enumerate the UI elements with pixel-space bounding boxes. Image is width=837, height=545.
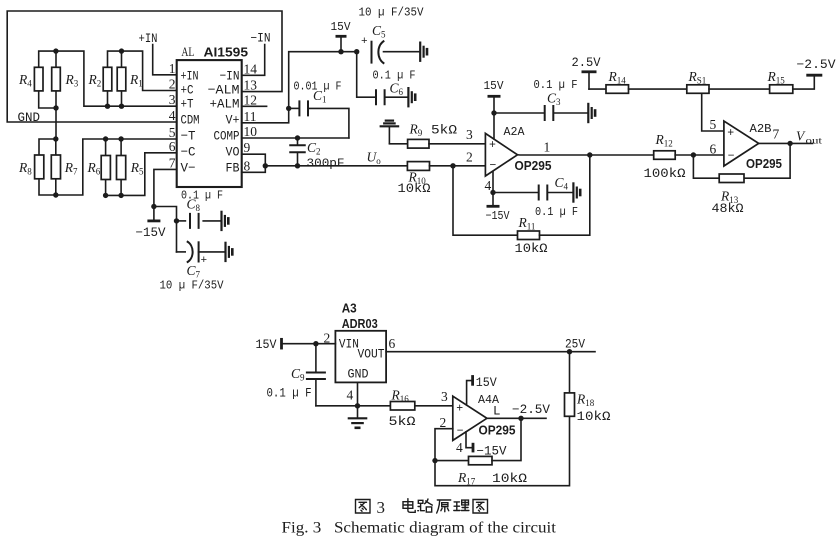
node -IN label [251,32,271,46]
resistor R2 [103,67,112,91]
wire C1 left lead from V+ line [286,106,299,111]
label 15V lower [256,338,277,352]
wire R5 top lead [118,136,123,155]
wire C3 right lead [553,112,588,114]
svg-text:+: + [361,36,368,48]
label R12 [655,132,673,149]
svg-text:10 µ F/35V: 10 µ F/35V [359,6,425,20]
ground after C6 [408,87,415,107]
svg-text:13: 13 [244,78,258,93]
label R17 value 10k [492,472,528,486]
svg-text:3: 3 [441,389,448,404]
svg-text:OP295: OP295 [515,158,552,173]
op-amp U1 AI1595 body [177,60,242,187]
wire R14 to RS1 [629,88,687,90]
resistor R10 [407,162,429,171]
wire C4 right lead [547,192,573,194]
svg-text:9: 9 [244,140,251,155]
wire pin9 VO / pin8 FB tie [242,154,268,172]
svg-text:−IN: −IN [220,68,240,83]
wire pin11 V+ up to 15V rail [242,49,360,123]
label pin3 number [466,127,473,142]
label U1 right pin names and numbers 14-8 [208,61,258,175]
svg-text:4: 4 [485,178,492,193]
caption Chinese: 图 3 电路原理图 [356,498,488,517]
label pin6 number ADR03 [389,336,396,351]
svg-text:−T: −T [181,129,196,144]
wire C9 bottom lead [315,379,317,406]
wire RS1 to R15 [709,88,770,90]
wire C1 right lead down to COMP [308,108,349,138]
svg-text:7: 7 [773,127,780,142]
svg-text:12: 12 [244,92,258,107]
resistor R11 [518,231,540,240]
svg-text:5kΩ: 5kΩ [431,124,458,138]
svg-text:+: + [489,139,496,152]
wire R12 to A2B pin6 [675,152,724,157]
wire +IN input stub [153,45,177,75]
wire R2 bottom lead [105,91,110,109]
label OP295 A2B [746,156,782,171]
wire R8/R7 bottom node up to -T (pin5) line [39,139,177,198]
label R7 [64,160,78,177]
wire A2A pin1 output line [518,152,654,157]
resistor R7 [51,155,60,179]
svg-text:15V: 15V [476,376,497,390]
svg-text:VIN: VIN [339,337,359,352]
resistor R16 [390,402,414,411]
label pin4 number [485,178,492,193]
label A2A [504,125,526,139]
wire C9/GND rail to R16 [316,405,391,407]
label R5 [130,160,144,177]
capacitor C9 [306,373,326,380]
svg-text:−: − [457,425,464,438]
label C4 [555,175,569,192]
label R18 value 10k [577,410,612,424]
wire R7 top lead [55,139,57,155]
svg-text:14: 14 [244,61,258,76]
ground after C7 [226,242,233,262]
svg-text:+: + [201,255,208,267]
wire ground to R9 [389,143,407,145]
wire ladder vertical R3R4-bottom to R7R8-top [55,91,57,139]
power 2.5V terminal [582,72,597,89]
resistor R8 [35,155,44,179]
svg-text:−15V: −15V [486,209,511,223]
wire A2B pin7 output [759,141,813,146]
label C9 [291,366,305,383]
capacitor C1 [299,100,308,116]
svg-text:GND: GND [348,367,369,382]
wire A4A pin2 to R17 node [432,429,453,464]
svg-text:6: 6 [389,336,396,351]
label 15V A2A [484,79,505,93]
svg-text:4: 4 [456,440,463,455]
wire R6 top lead [103,136,108,155]
node +IN label [139,32,158,46]
label pin L (output 1) [493,405,501,419]
svg-text:V+: V+ [226,112,240,127]
label R11 [518,215,536,232]
svg-text:−15V: −15V [136,226,166,240]
label R18 [576,392,595,409]
svg-text:−: − [490,160,497,173]
wire VOUT pin6 to 25V rail [386,349,595,354]
wire R9 to A2A pin3 [429,143,485,145]
wire R18 bottom loop to R17 node [435,416,570,485]
svg-text:−: − [728,150,735,163]
ground below ADR03 [348,406,368,428]
svg-text:5kΩ: 5kΩ [389,415,417,429]
label C4 value 0.1uF [535,205,578,219]
power -15V terminal [147,207,160,221]
svg-text:V−: V− [181,161,196,176]
label 15V A4A [476,376,497,390]
svg-text:5: 5 [169,125,176,140]
wire R13 loop [693,143,790,178]
wire 15V to A2A V+ and C3 [491,96,544,139]
label -15V [136,226,166,240]
power 15V terminal A2A [488,95,501,98]
label R16 value 5k [389,415,417,429]
label R10 value 10k [398,182,432,196]
capacitor C5 (polarized) [361,36,420,64]
wire GND pin4 ADR03 [355,382,360,408]
wire R17 right up to output [492,418,521,460]
svg-text:11: 11 [244,109,257,124]
wire RS1 wiper to A2B pin5 [702,93,724,131]
label pin4 number ADR03 [347,388,354,403]
wire -IN input stub [242,45,265,76]
label C8 value 0.1uF [181,189,223,203]
resistor R6 [101,156,110,180]
label AI1595 [204,46,249,60]
label R16 [391,388,410,405]
label VOUT [358,347,385,362]
label U1 left pin names and numbers 1-7 [169,61,200,176]
svg-text:6: 6 [710,142,717,157]
ground after C4 [573,182,580,202]
wire R10 to A2A pin2 [430,163,486,168]
wire R16 to A4A pin3 [415,405,453,407]
svg-text:8: 8 [244,158,251,173]
svg-text:−ALM: −ALM [208,82,240,97]
svg-text:AI1595: AI1595 [204,46,249,60]
label C1 [313,88,327,105]
svg-text:OP295: OP295 [479,423,516,438]
svg-text:4: 4 [347,388,354,403]
ground after C8 [222,211,229,231]
ground after C3 [588,103,595,123]
wire R2/R1 top node to +C (pin2) [108,48,177,90]
svg-text:2.5V: 2.5V [572,56,601,70]
label C3 value 0.1uF [534,78,578,92]
label C3 [547,91,561,108]
label R11 value 10k [515,242,549,256]
svg-text:3: 3 [466,127,473,142]
svg-text:15V: 15V [331,20,352,34]
label pin3 number A4A [441,389,448,404]
resistor R5 [117,156,126,180]
wire A2A V- pin4 node [490,171,495,195]
svg-text:2: 2 [324,331,331,346]
capacitor C6 [376,89,385,105]
svg-text:2: 2 [169,77,176,92]
node U_o label [367,150,382,167]
svg-text:0.1 µ F: 0.1 µ F [535,205,578,219]
svg-text:A2A: A2A [504,125,526,139]
label R8 [18,160,32,177]
svg-text:2: 2 [440,415,447,430]
label pin1 number [544,140,551,155]
svg-text:2: 2 [466,150,473,165]
label AL [181,44,194,59]
svg-text:10 µ F/35V: 10 µ F/35V [160,279,225,293]
label C1 value 0.01uF [294,80,342,94]
label C2 value 300pF [307,157,345,171]
label A2B [750,122,772,136]
wire C4 left lead [493,192,539,194]
wire R18 top lead [569,352,571,393]
label -2.5V [797,58,837,72]
svg-text:100kΩ: 100kΩ [644,167,687,181]
capacitor C3 [545,105,554,121]
ground after C5 [420,42,427,62]
svg-text:+IN: +IN [139,32,158,46]
wire R1 bottom lead [119,91,124,109]
svg-text:VO: VO [226,144,240,159]
svg-text:300pF: 300pF [307,157,345,171]
label A4A [478,393,500,407]
label ADR03 [342,317,378,331]
svg-text:−C: −C [181,144,196,159]
power 15V terminal lower [280,338,283,350]
wire pin10 COMP line [242,135,349,140]
svg-text:3: 3 [377,498,386,517]
wire C8 left lead [177,220,186,222]
wire R3 top lead [55,51,57,67]
svg-text:6: 6 [169,139,176,154]
svg-text:10kΩ: 10kΩ [492,472,528,486]
svg-text:0.1 µ F: 0.1 µ F [267,387,312,401]
node Vout label [796,129,822,147]
label C8 [187,197,201,214]
svg-text:−IN: −IN [251,32,271,46]
label R9 and value 5k [409,122,458,139]
power -15V terminal A2A [487,193,500,207]
svg-text:1: 1 [544,140,551,155]
resistor R17 [469,456,493,464]
resistor R15 [770,85,793,94]
wire R17 left [435,460,469,462]
label pin2 number [466,150,473,165]
svg-text:+ALM: +ALM [210,97,240,112]
label -15V A2A [486,209,511,223]
capacitor C8 [190,213,199,229]
wire C9 top lead [315,344,317,373]
label R14 [608,69,627,86]
svg-text:VOUT: VOUT [358,347,385,362]
label VIN [339,337,359,352]
label R10 [408,170,427,187]
wire V- node to C8/C7 branch [154,207,179,252]
wire R15 to -2.5V [793,75,815,89]
svg-text:ADR03: ADR03 [342,317,378,331]
label R13 value 48k [712,202,745,216]
svg-text:1: 1 [169,61,176,76]
wire R6/R5 bottom node to -C (pin6) [103,153,177,198]
svg-text:7: 7 [169,155,176,170]
label GND pin [348,367,369,382]
power -15V terminal A4A [472,443,475,453]
label C9 value 0.1uF [267,387,312,401]
label A3 [342,302,357,316]
resistor R14 [606,85,629,94]
svg-text:out: out [806,137,823,147]
label 15V [331,20,352,34]
op-amp A2A OP295 [485,133,517,176]
resistor R4 [34,67,43,91]
label pin4 number A4A [456,440,463,455]
label C5 value 10uF/35V [359,6,425,20]
resistor RS1 (trimmer) [687,85,709,94]
svg-text:L: L [493,405,501,419]
wire pin7 V- to -15V node [151,169,177,209]
label OP295 A4A [479,423,516,438]
svg-text:AL: AL [181,44,194,59]
op-amp A4A OP295 [453,396,487,440]
svg-text:3: 3 [169,92,176,107]
label OP295 A2A [515,158,552,173]
wire R1 top lead [121,51,123,67]
wire 2.5V to R14 [589,88,606,90]
label C7 value 10uF/35V [160,279,225,293]
svg-text:10kΩ: 10kΩ [515,242,549,256]
label C5 [372,23,386,40]
label 2.5V [572,56,601,70]
wire GND rail / outer -ALM loop (pin13 to pin4) [7,11,282,122]
wire pin12 +ALM stub [242,105,267,107]
node GND label [18,111,41,125]
svg-text:FB: FB [226,161,240,176]
label R13 [720,189,739,206]
label pin5 number [710,117,717,132]
wire 15V to VIN pin2 [282,341,336,346]
label R15 [767,69,786,86]
resistor R13 [719,174,744,183]
capacitor C7 (polarized) [177,241,226,267]
label C6 value 0.1uF [373,69,416,83]
wire R8/R7 top node [39,136,59,155]
label R4 [18,72,32,89]
label -15V A4A [477,445,507,459]
label pin7 number [773,127,780,142]
svg-text:−2.5V: −2.5V [797,58,837,72]
svg-text:10kΩ: 10kΩ [577,410,612,424]
wire A4A V- pin4 to -15V [466,432,472,448]
svg-text:+: + [727,127,734,140]
svg-text:−2.5V: −2.5V [512,403,550,417]
svg-text:GND: GND [18,111,41,125]
caption Fig. 3 Schematic diagram of the circuit [282,519,557,537]
svg-text:OP295: OP295 [746,156,782,171]
svg-text:48kΩ: 48kΩ [712,202,745,216]
capacitor C4 [539,185,548,201]
svg-text:10: 10 [244,124,258,139]
wire R11 loop left [453,166,518,235]
power 15V terminal [336,36,347,51]
capacitor C2 [289,138,306,169]
svg-text:25V: 25V [565,338,585,352]
svg-text:+: + [456,403,463,416]
label pin6 number [710,142,717,157]
wire A4A V+ 15V [467,375,473,405]
svg-text:A3: A3 [342,302,357,316]
wire U_o output line [265,165,407,167]
wire R5 bottom lead [120,180,122,196]
svg-text:10kΩ: 10kΩ [398,182,432,196]
label R12 value 100k [644,167,687,181]
label R3 [65,72,79,89]
label C6 [390,81,404,98]
label pin2 number ADR03 [324,331,331,346]
svg-text:A2B: A2B [750,122,772,136]
resistor R18 [565,393,575,416]
label R2 [88,72,102,89]
wire A4A output line [487,416,546,421]
wire R4/R3 top node to +T (pin3) line [39,48,177,106]
resistor R12 [654,151,676,160]
svg-text:+IN: +IN [181,68,199,83]
label C2 [307,140,321,157]
svg-text:15V: 15V [484,79,505,93]
label pin2 number A4A [440,415,447,430]
label R6 [87,160,101,177]
power -2.5V terminal [806,74,822,77]
label 25V [565,338,585,352]
svg-text:CDM: CDM [181,112,200,127]
label -2.5V output [512,403,550,417]
label C7 [187,263,201,280]
svg-text:COMP: COMP [214,129,240,144]
ground above R9 [380,121,400,144]
wire C6 right lead [385,96,408,98]
wire 15V rail down to C6 [357,52,376,97]
label RS1 [688,69,707,86]
wire C8 right lead [203,220,221,222]
label R17 [457,470,476,487]
op-amp A3 ADR03 body [335,331,386,383]
label R1 [129,72,143,89]
wire R4/R3 bottom node [39,91,59,111]
svg-text:4: 4 [169,108,176,123]
svg-text:5: 5 [710,117,717,132]
svg-text:+T: +T [181,97,194,112]
wire R11 loop right [540,155,590,235]
svg-text:+C: +C [181,82,194,97]
svg-text:Fig. 3 Schematic diagram of: Fig. 3 Schematic diagram of the circuit [282,519,557,537]
resistor R9 [408,139,429,148]
wire R7 bottom lead [55,179,57,195]
op-amp A2B OP295 [724,121,759,166]
resistor R3 [52,67,61,91]
resistor R1 [117,67,126,91]
svg-text:15V: 15V [256,338,277,352]
